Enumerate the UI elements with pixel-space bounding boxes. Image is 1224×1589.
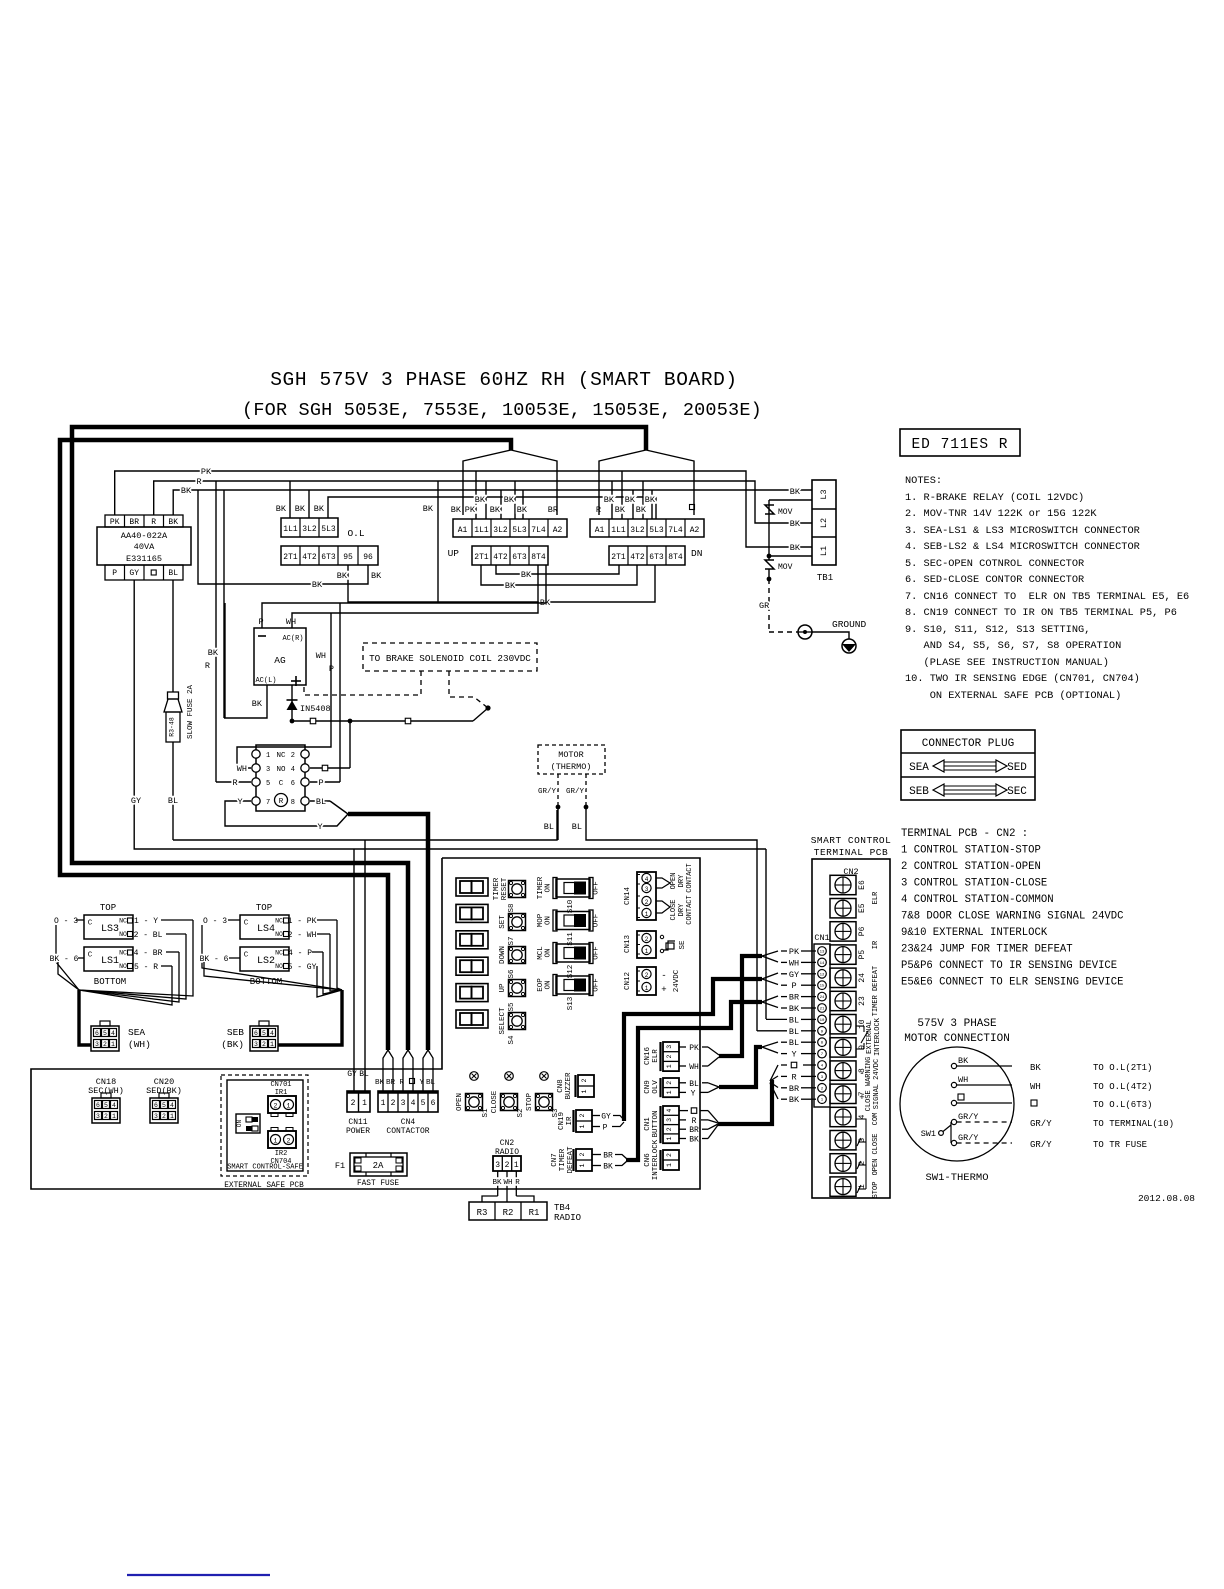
svg-text:R: R [279,798,284,806]
svg-text:2: 2 [579,1113,586,1117]
svg-text:BL: BL [789,1015,799,1025]
svg-text:BK: BK [504,495,515,505]
svg-text:1: 1 [666,1064,673,1068]
svg-text:ON EXTERNAL SAFE PCB (OPTIONAL: ON EXTERNAL SAFE PCB (OPTIONAL) [905,690,1121,702]
svg-text:4. SEB-LS2 & LS4 MICROSWITCH C: 4. SEB-LS2 & LS4 MICROSWITCH CONNECTOR [905,541,1140,553]
svg-text:4: 4 [170,1102,174,1109]
svg-text:S1: S1 [482,1108,490,1118]
svg-text:GY: GY [601,1113,611,1122]
connector IR2 CN704 [268,1128,296,1167]
svg-text:2: 2 [645,899,649,906]
svg-text:S13: S13 [567,996,575,1010]
svg-text:R: R [232,778,237,788]
svg-text:SGH 575V 3 PHASE 60HZ RH (SMAR: SGH 575V 3 PHASE 60HZ RH (SMART BOARD) [270,369,737,391]
svg-text:ELR: ELR [872,891,880,904]
svg-text:E5: E5 [858,903,867,913]
svg-text:BK: BK [790,487,801,497]
svg-text:2T1: 2T1 [474,553,489,562]
svg-text:6T3: 6T3 [649,553,664,562]
svg-text:BK: BK [789,1095,800,1105]
svg-text:SE: SE [679,940,687,950]
svg-text:1: 1 [170,1113,174,1120]
svg-text:BK: BK [645,495,656,505]
CN1 button O label [691,1108,697,1114]
svg-text:1. R-BRAKE RELAY (COIL 12VDC): 1. R-BRAKE RELAY (COIL 12VDC) [905,492,1084,504]
svg-text:O.L: O.L [347,528,364,539]
wire CN19 to CN1 GY/P heavy [592,973,778,1133]
svg-text:LS4: LS4 [257,924,275,935]
svg-text:WH: WH [958,1075,968,1085]
svg-text:GR: GR [759,601,769,611]
svg-text:SELECT: SELECT [499,1007,507,1035]
SW1-THERMO label [925,1172,988,1184]
svg-text:3: 3 [401,1099,406,1108]
svg-text:5: 5 [103,1030,107,1037]
svg-text:Y: Y [791,1050,796,1060]
svg-text:2: 2 [581,1078,588,1082]
svg-text:BL: BL [789,1038,799,1048]
svg-text:BK: BK [423,504,434,514]
wire LS4 contacts to SEB [288,917,342,991]
terminal block TB4 RADIO [469,1202,581,1223]
svg-text:1: 1 [579,1163,586,1167]
connector CN1 BUTTON [644,1106,679,1143]
svg-text:A2: A2 [553,526,563,535]
wire relay pin7 Y to CN4 bundle [225,797,348,832]
seven-segment displays [456,878,488,1028]
svg-text:2A: 2A [373,1161,384,1171]
svg-text:PK: PK [110,518,120,527]
svg-text:BR: BR [689,1126,699,1135]
svg-text:1: 1 [514,1161,519,1170]
motor circle [900,1047,1014,1161]
connector CN6 INTERLOCK [644,1139,679,1180]
slide switch S13 EOP ON/OFF [537,975,601,1011]
wire BL motor thermo to CN1 terminals [544,807,766,1031]
svg-text:1: 1 [381,1099,386,1108]
contactor UP terminal labels [451,495,558,515]
wire LS3 contacts to SEA [79,917,193,999]
wire PK (transformer to UP-1L1 and TB1 L1) [115,467,812,547]
svg-text:TB4: TB4 [554,1203,570,1213]
svg-text:CLOSE WARNING: CLOSE WARNING [865,1057,873,1112]
svg-text:3L2: 3L2 [493,526,508,535]
svg-text:SEC(WH): SEC(WH) [88,1086,124,1096]
ground symbol (frame) [797,619,867,639]
svg-text:2: 2 [287,1138,291,1145]
svg-text:24: 24 [858,973,867,983]
svg-text:NC: NC [119,950,127,957]
date [1138,1193,1195,1204]
svg-text:TO O.L(4T2): TO O.L(4T2) [1093,1082,1152,1092]
svg-text:(THERMO): (THERMO) [551,762,592,772]
svg-text:ON: ON [545,948,553,957]
limit switch LS2 [240,947,289,987]
relay R socket [252,745,309,811]
svg-text:O - 3: O - 3 [203,917,227,926]
svg-text:BR: BR [603,1152,613,1161]
svg-text:TO TR FUSE: TO TR FUSE [1093,1140,1147,1150]
svg-text:7&8 DOOR CLOSE WARNING SIGNAL: 7&8 DOOR CLOSE WARNING SIGNAL 24VDC [901,911,1124,923]
svg-text:BR: BR [789,1084,799,1094]
svg-text:NO: NO [275,931,283,938]
svg-text:SET: SET [499,915,507,929]
svg-text:CN16: CN16 [644,1047,652,1066]
indicator LED above S3 [540,1072,549,1081]
svg-text:P6: P6 [858,926,867,936]
svg-text:P5&P6 CONNECT TO IR SENSING DE: P5&P6 CONNECT TO IR SENSING DEVICE [901,960,1117,972]
svg-text:L3: L3 [819,489,829,499]
CN2 annotation IR [872,940,880,949]
connector CN2 RADIO [493,1139,521,1171]
connector CN18 SEC(WH) [88,1077,124,1123]
svg-text:2 - BL: 2 - BL [134,931,163,940]
wire relay pin5 R [216,778,251,788]
wire BK net (AG AC(L)) [224,685,267,718]
svg-text:2012.08.08: 2012.08.08 [1138,1193,1195,1204]
svg-text:BR: BR [386,1079,396,1087]
CN2 annotation COM bracket [856,1113,880,1199]
svg-text:BL: BL [426,1079,436,1087]
svg-text:5: 5 [162,1102,166,1109]
svg-text:OPEN: OPEN [670,873,678,890]
svg-text:13: 13 [820,951,825,955]
external safe PCB outline (L-shaped board) [31,858,700,1189]
connector plug table [901,730,1035,800]
slide switch S12 MCL ON/OFF [537,943,601,979]
svg-text:CN1: CN1 [644,1117,652,1131]
svg-text:PK: PK [689,1044,699,1053]
svg-text:BL: BL [359,1070,369,1079]
svg-text:1: 1 [111,1041,115,1048]
svg-text:BK: BK [181,486,192,496]
svg-text:96: 96 [363,553,373,562]
svg-text:MOTOR CONNECTION: MOTOR CONNECTION [904,1033,1010,1045]
svg-text:3: 3 [95,1041,99,1048]
svg-text:2: 2 [274,1103,278,1110]
svg-text:4: 4 [666,1109,673,1113]
svg-text:6: 6 [254,1030,258,1037]
svg-text:STOP: STOP [872,1182,880,1199]
slide switch S10 TIMER ON/OFF [537,876,601,913]
wire CN4 pin fans [383,1050,433,1091]
svg-text:24: 24 [820,996,825,1000]
svg-text:AG: AG [274,655,286,666]
svg-text:CN6: CN6 [644,1153,652,1167]
svg-text:6: 6 [95,1030,99,1037]
svg-text:2. MOV-TNR 14V 122K or 15G 122: 2. MOV-TNR 14V 122K or 15G 122K [905,508,1097,520]
svg-text:7. CN16 CONNECT TO ELR ON TB5: 7. CN16 CONNECT TO ELR ON TB5 TERMINAL E… [905,591,1189,603]
svg-text:3. SEA-LS1 & LS3 MICROSWITCH C: 3. SEA-LS1 & LS3 MICROSWITCH CONNECTOR [905,525,1140,537]
svg-text:23&24 JUMP FOR TIMER DEFEAT: 23&24 JUMP FOR TIMER DEFEAT [901,944,1073,956]
svg-text:F1: F1 [335,1161,345,1171]
svg-text:CN2: CN2 [500,1139,515,1148]
svg-text:1: 1 [645,911,649,918]
CN2 annotation CLOSE WARNING SIGNAL 24VDC [859,1057,881,1112]
svg-text:4T2: 4T2 [302,553,317,562]
svg-text:CLOSE: CLOSE [491,1090,499,1113]
CN2 annotation TIMER DEFEAT [872,966,880,1016]
svg-text:C: C [279,780,284,788]
svg-text:BK: BK [789,1004,800,1014]
svg-text:BR: BR [789,993,799,1003]
svg-text:BR: BR [129,518,139,527]
TB1 wire labels BK [790,487,801,553]
svg-text:2: 2 [645,936,649,943]
connector SEA (WH) [91,1021,151,1051]
svg-text:1: 1 [266,752,270,760]
motor thermo dashed box [538,745,605,774]
svg-text:SEA: SEA [909,762,929,774]
svg-text:RESET: RESET [501,877,509,900]
wire R (transformer to relay, O.L, DN-1L1, TB1 L2) [154,477,812,782]
svg-text:WH: WH [286,617,296,627]
svg-text:BK: BK [636,505,647,515]
wire BK O.L 96 return [198,490,382,590]
svg-text:1: 1 [287,1103,291,1110]
svg-text:4: 4 [270,1030,274,1037]
wire LS3 common O-3 [54,917,84,990]
fuse R3-48 slow fuse 2A [164,580,195,840]
svg-text:2: 2 [666,1081,673,1085]
svg-text:15: 15 [820,985,825,989]
connector CN14 dry contacts [624,863,694,924]
wire SEB cable heavy [278,990,342,1045]
svg-text:TO BRAKE SOLENOID COIL 230VDC: TO BRAKE SOLENOID COIL 230VDC [369,653,531,664]
svg-text:6: 6 [291,780,295,788]
varistor MOV upper [765,505,793,517]
CN1 strip O label [791,1062,797,1068]
push button S7 SET [499,914,526,946]
svg-text:GY: GY [789,970,799,980]
svg-text:BK: BK [790,543,801,553]
svg-text:RADIO: RADIO [554,1213,581,1223]
svg-text:4 - P: 4 - P [288,949,312,958]
svg-text:BK: BK [168,518,178,527]
svg-text:GY: GY [347,1070,357,1079]
svg-text:3: 3 [495,1161,500,1170]
connector IR1 CN701 [268,1081,296,1117]
svg-text:R: R [151,518,156,527]
svg-text:C: C [244,920,249,928]
wire WH net (AG to relay pin3 and UP-8T4) [237,565,538,774]
svg-text:Y: Y [317,822,322,832]
wire CN16 to CN1 PK/WH heavy [679,951,778,1072]
svg-text:2: 2 [666,1055,673,1059]
svg-text:2 - WH: 2 - WH [288,931,317,940]
svg-text:1: 1 [666,1090,673,1094]
svg-text:3L2: 3L2 [302,525,317,534]
svg-text:2: 2 [262,1041,266,1048]
wire GR/Y motor thermo leads [538,774,588,809]
motor pins and leads [951,1056,1012,1146]
svg-text:14: 14 [820,962,825,966]
svg-text:TO O.L(2T1): TO O.L(2T1) [1093,1063,1152,1073]
svg-text:2: 2 [505,1161,510,1170]
svg-text:P: P [112,569,117,578]
svg-text:CN11: CN11 [348,1118,367,1127]
svg-text:6T3: 6T3 [512,553,527,562]
svg-text:R3-48: R3-48 [169,717,176,737]
svg-text:BK: BK [312,580,323,590]
terminal strip CN1 [814,933,830,1107]
svg-text:AC(L): AC(L) [255,677,276,685]
wire relay pin8 BL heavy to CN4 [310,797,428,1050]
svg-text:5: 5 [262,1030,266,1037]
svg-text:SED(BK): SED(BK) [146,1086,182,1096]
svg-text:A1: A1 [595,526,605,535]
svg-text:DEFEAT: DEFEAT [567,1146,575,1174]
wire heavy UP-coil feed (border inner) [60,440,511,1050]
svg-text:(PLASE SEE INSTRUCTION MANUAL): (PLASE SEE INSTRUCTION MANUAL) [905,657,1109,669]
svg-text:BK: BK [958,1056,969,1066]
brake solenoid dashed box [363,643,537,671]
svg-text:4: 4 [111,1030,115,1037]
svg-text:S5: S5 [508,1002,516,1012]
push button S4 SELECT [499,1007,526,1045]
fuse F1 fast fuse 2A [335,1153,407,1188]
svg-text:BL: BL [168,796,178,806]
svg-text:R: R [692,1117,697,1126]
svg-text:SLOW FUSE 2A: SLOW FUSE 2A [187,684,195,739]
svg-text:E6: E6 [858,880,867,890]
svg-text:BK: BK [276,504,287,514]
svg-text:3: 3 [154,1113,158,1120]
svg-text:EXTERNAL: EXTERNAL [866,1020,874,1054]
svg-text:2T1: 2T1 [283,553,298,562]
limit switch LS1 [84,947,133,987]
wire ground link [812,632,849,639]
svg-text:4 - BR: 4 - BR [134,949,163,958]
svg-text:8: 8 [291,799,295,807]
svg-text:L2: L2 [819,518,829,528]
svg-text:+: + [661,985,666,995]
svg-text:A2: A2 [690,526,700,535]
svg-text:NC: NC [275,950,283,957]
svg-text:3: 3 [666,1045,673,1049]
connector CN7 TIMER DEFEAT [551,1146,592,1174]
svg-text:CN13: CN13 [624,935,632,954]
indicator LED above S1 [470,1072,479,1081]
svg-text:3: 3 [266,766,270,774]
svg-text:1: 1 [274,1138,278,1145]
svg-text:5. SEC-OPEN COTNROL CONNECTOR: 5. SEC-OPEN COTNROL CONNECTOR [905,558,1084,570]
svg-text:NO: NO [119,963,127,970]
svg-text:ED 711ES R: ED 711ES R [911,437,1008,453]
svg-text:BK: BK [295,504,306,514]
svg-text:CN4: CN4 [401,1118,416,1127]
svg-text:GR/Y: GR/Y [538,788,557,796]
svg-text:5L3: 5L3 [321,525,336,534]
svg-text:BL: BL [544,822,554,832]
svg-text:4: 4 [291,766,295,774]
svg-text:BUZZER: BUZZER [565,1072,573,1100]
CN2 annotation EXTERNAL INTERLOCK [856,1017,882,1056]
svg-text:GR/Y: GR/Y [1030,1119,1052,1129]
svg-text:3: 3 [645,886,649,893]
svg-text:SW1: SW1 [921,1129,936,1139]
wire LS1 contacts to SEA [79,949,179,1005]
svg-text:95: 95 [343,553,353,562]
svg-text:8T4: 8T4 [668,553,683,562]
svg-text:4T2: 4T2 [630,553,645,562]
svg-text:BL: BL [789,1027,799,1037]
overload relay O.L [276,504,378,565]
connector CN19 IR [558,1110,592,1132]
svg-text:R1: R1 [529,1208,540,1218]
svg-text:ON: ON [545,883,553,892]
svg-text:AA40-022A: AA40-022A [121,531,168,541]
svg-text:BK: BK [208,648,219,658]
svg-text:1: 1 [362,1099,367,1108]
svg-text:4: 4 [645,876,649,883]
svg-text:TO TERMINAL(10): TO TERMINAL(10) [1093,1119,1174,1129]
motor connection title [904,1018,1010,1045]
svg-text:BK: BK [790,519,801,529]
svg-text:CONTACT: CONTACT [686,895,694,924]
svg-text:IR: IR [566,1116,574,1126]
svg-text:3 CONTROL STATION-CLOSE: 3 CONTROL STATION-CLOSE [901,878,1047,890]
svg-text:5L3: 5L3 [512,526,527,535]
svg-text:2: 2 [645,972,649,979]
svg-text:OPEN: OPEN [456,1093,464,1111]
svg-text:BUTTON: BUTTON [652,1110,660,1137]
svg-text:BOTTOM: BOTTOM [94,977,126,987]
svg-text:BK: BK [337,571,348,581]
svg-text:O - 3: O - 3 [54,917,78,926]
svg-text:PK: PK [789,947,800,957]
svg-text:21: 21 [820,1008,825,1012]
svg-text:A1: A1 [458,526,468,535]
svg-text:1 CONTROL STATION-STOP: 1 CONTROL STATION-STOP [901,845,1041,857]
connector CN11 POWER [346,1070,370,1136]
wire SEA cable heavy [79,990,91,1045]
svg-text:9&10 EXTERNAL INTERLOCK: 9&10 EXTERNAL INTERLOCK [901,927,1048,939]
svg-text:CLOSE: CLOSE [670,899,678,920]
svg-text:SEA: SEA [128,1027,145,1038]
wire GR dashed to ground [759,579,797,632]
svg-text:IR: IR [872,940,880,949]
svg-text:TERMINAL PCB: TERMINAL PCB [814,847,888,858]
push button S8 TIMER RESET [493,877,526,912]
svg-text:SEC: SEC [1007,786,1027,798]
svg-text:1L1: 1L1 [611,526,626,535]
svg-text:CONTACT: CONTACT [686,863,694,892]
svg-text:MOTOR: MOTOR [558,750,584,760]
svg-text:C: C [88,920,93,928]
svg-text:OPEN: OPEN [872,1159,880,1176]
svg-text:BK: BK [371,571,382,581]
svg-text:3: 3 [254,1041,258,1048]
svg-text:23: 23 [858,996,867,1006]
svg-text:BL: BL [168,569,178,578]
svg-text:PK: PK [465,505,476,515]
wire 5L3 bus (O.L to UP/DN 5L3) [328,497,656,519]
svg-text:R: R [515,1179,520,1187]
motor legend text [1030,1063,1174,1150]
wire BL (fuse to CN11 and motor-thermo) [168,796,557,1091]
svg-text:OFF: OFF [593,978,601,992]
indicator LED above S2 [505,1072,514,1081]
svg-text:1: 1 [581,1089,588,1093]
connector CN16 ELR [644,1042,679,1071]
svg-text:10: 10 [820,1019,825,1023]
wire dashed brake left leg [304,671,421,695]
svg-text:(WH): (WH) [128,1039,151,1050]
wire GY (transformer to CN11) [131,580,766,1091]
svg-text:FAST FUSE: FAST FUSE [357,1180,399,1188]
varistor MOV lower [765,560,793,572]
